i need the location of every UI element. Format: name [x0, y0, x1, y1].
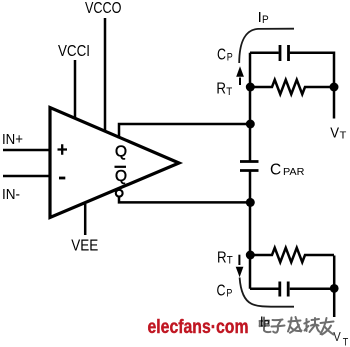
wire IN- input — [3, 175, 50, 178]
svg-text:Q: Q — [115, 168, 127, 185]
svg-text:P: P — [227, 51, 233, 63]
svg-text:IN+: IN+ — [2, 131, 23, 148]
svg-text:C: C — [217, 282, 226, 299]
resistor RT top — [252, 80, 332, 94]
svg-text:C: C — [217, 46, 226, 63]
wire VEE supply line — [84, 204, 87, 235]
wire IP leader curve bottom — [240, 278, 294, 307]
capacitor CP bottom plates — [280, 282, 288, 297]
svg-text:P: P — [262, 14, 269, 26]
svg-text:P: P — [226, 288, 232, 300]
wire Q output to node — [119, 124, 250, 139]
svg-text:VCCO: VCCO — [85, 0, 122, 17]
wire bottom RC loop — [250, 256, 334, 289]
node Qbar wire junction — [246, 198, 255, 207]
svg-text:VEE: VEE — [71, 238, 98, 255]
watermark chinese char 5 — [321, 318, 334, 335]
svg-text:V: V — [330, 125, 339, 141]
wire VT top terminal — [333, 87, 336, 119]
node bottom-left junction — [246, 251, 255, 260]
svg-text:T: T — [340, 129, 347, 141]
wire IN+ input — [3, 149, 50, 152]
watermark chinese char 4 — [304, 318, 319, 332]
watermark chinese char 2 — [272, 320, 285, 333]
svg-text:VCCI: VCCI — [58, 43, 90, 60]
node top-left junction — [246, 83, 255, 92]
node Q wire junction — [246, 120, 255, 129]
svg-text:T: T — [343, 336, 349, 347]
wire Qbar output to node — [119, 197, 250, 203]
resistor RT bottom — [252, 248, 334, 262]
svg-text:elecfans·com: elecfans·com — [148, 317, 249, 338]
wire top RC loop — [250, 53, 334, 87]
svg-text:IN-: IN- — [2, 186, 20, 203]
watermark chinese char 1 — [260, 318, 271, 333]
wire central vertical bus upper — [249, 53, 252, 161]
svg-text:V: V — [333, 329, 341, 344]
node top-right junction — [330, 83, 339, 92]
wire VCCI supply line — [74, 60, 77, 119]
svg-text:R: R — [217, 249, 227, 266]
svg-text:T: T — [226, 86, 232, 98]
node bottom-right junction — [330, 284, 339, 293]
arrow IP current bottom — [238, 255, 240, 265]
capacitor CP top plates — [280, 45, 289, 61]
label + input — [58, 144, 68, 155]
svg-text:R: R — [216, 80, 226, 97]
wire IP leader curve top — [239, 29, 294, 63]
inversion bubble Qbar — [116, 190, 123, 197]
label - input — [59, 177, 65, 180]
arrow IP current top — [239, 78, 241, 86]
svg-text:Q: Q — [115, 144, 127, 161]
op-amp comparator triangle — [50, 108, 179, 218]
wire central vertical bus lower — [249, 171, 252, 289]
wire VT bottom terminal — [333, 288, 336, 317]
svg-text:P: P — [264, 318, 270, 330]
watermark chinese char 3 — [288, 317, 302, 333]
wire VCCO supply line — [104, 18, 107, 132]
capacitor CPAR — [240, 162, 259, 171]
svg-text:T: T — [227, 255, 233, 267]
